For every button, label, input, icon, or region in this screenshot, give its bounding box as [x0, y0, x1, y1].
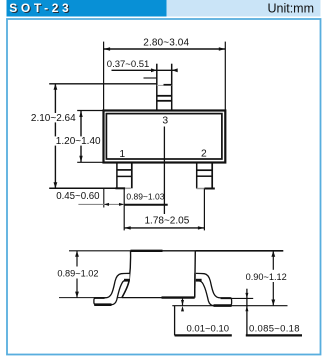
body left side — [122, 251, 131, 298]
label 2.10~2.64 — [30, 113, 77, 124]
svg-text:1.78~2.05: 1.78~2.05 — [145, 215, 190, 226]
dim 0.37~0.51 line — [112, 69, 178, 71]
arrows of top view — [54, 47, 226, 229]
pin 2 left edge — [196, 162, 198, 188]
header blue title bar — [7, 0, 167, 17]
body right side — [194, 251, 197, 298]
body top edge — [163, 250, 196, 252]
pin 2 center line — [203, 189, 205, 231]
svg-text:0.45~0.60: 0.45~0.60 — [56, 191, 100, 202]
dim 0.01~0.10 line — [182, 298, 184, 306]
pin 3 short bend line — [144, 77, 157, 79]
arrow 0.37 right — [172, 68, 178, 72]
dim 0.90~1.12 line lower seg — [272, 282, 274, 306]
dim 2.10~2.64 bottom extension — [49, 187, 117, 189]
top plane line right — [195, 250, 283, 252]
pin 2 bottom edge right black — [205, 188, 215, 190]
dim 0.89~1.02 line upper seg — [76, 251, 78, 267]
svg-text:2: 2 — [201, 149, 207, 160]
pin 1 rung — [117, 175, 132, 177]
label 0.90~1.12 — [244, 272, 289, 282]
svg-text:2.80~3.04: 2.80~3.04 — [143, 38, 189, 49]
top plane line thin left — [69, 250, 131, 252]
svg-text:0.89~1.02: 0.89~1.02 — [57, 269, 98, 279]
svg-text:1: 1 — [119, 149, 125, 160]
pin 1 bottom edge right grey — [125, 187, 131, 189]
svg-text:3: 3 — [162, 115, 168, 126]
body outline inner — [106, 114, 221, 159]
arrow 0.90 top — [271, 251, 275, 257]
dim 2.80~3.04 extension right — [224, 42, 226, 111]
seating plane line — [172, 305, 287, 307]
dim 0.085~0.18 underline — [246, 334, 302, 336]
pin 3 rung — [157, 100, 172, 102]
center line — [163, 127, 165, 215]
arrow 0.45 left — [104, 203, 109, 206]
pin 1 left edge — [116, 162, 118, 188]
arrow 0.085 down — [245, 293, 248, 299]
body outline outer — [104, 111, 226, 163]
left lead foot bottom thick — [94, 303, 111, 306]
pin 1 right edge — [131, 162, 133, 188]
left lead foot top thick — [94, 297, 104, 299]
arrow 1.20 bottom — [79, 156, 82, 163]
label 1.20~1.40 — [55, 136, 103, 147]
dim 0.89~1.02 line lower seg — [76, 279, 78, 298]
dim 0.45~0.60 leader line — [78, 203, 124, 205]
dim 2.80~3.04 extension left — [103, 42, 105, 111]
arrow 1.20 top — [79, 111, 82, 118]
right lead foot bottom thick — [214, 304, 232, 307]
arrow 0.89 top — [75, 251, 79, 257]
svg-text:0.01~0.10: 0.01~0.10 — [187, 323, 230, 334]
right lead foot top thick — [221, 297, 232, 299]
dim 1.20~1.40 top extension — [77, 110, 103, 112]
svg-text:1.20~1.40: 1.20~1.40 — [56, 136, 101, 147]
pin 2 bottom edge — [197, 188, 205, 190]
pin 3 bend line grey — [157, 84, 172, 86]
dim 2.10~2.64 top extension — [49, 83, 157, 85]
side view texts — [56, 269, 300, 335]
pin 3 right edge — [171, 64, 173, 111]
svg-text:0.37~0.51: 0.37~0.51 — [107, 59, 150, 70]
dim 0.01~0.10 underline — [175, 334, 232, 336]
arrow 1.78 left — [124, 226, 131, 229]
dim 0.89~1.03 underline — [124, 204, 168, 206]
arrow 2.10 top — [54, 84, 58, 90]
pin 2 rung — [197, 175, 213, 177]
arrow 0.085 up — [245, 306, 248, 312]
body left edge extension — [103, 189, 105, 208]
arrow 0.37 left — [151, 68, 157, 72]
dim 1.20~1.40 line — [80, 111, 82, 163]
dim 2.80~3.04 line — [104, 48, 226, 50]
right lead shoulder mark — [196, 279, 202, 282]
svg-text:0.085~0.18: 0.085~0.18 — [249, 323, 300, 334]
arrow 1.78 right — [198, 226, 205, 229]
svg-text:SOT-23: SOT-23 — [9, 1, 72, 15]
pin 1 bottom edge — [115, 187, 125, 189]
dim 2.10~2.64 line — [54, 84, 56, 188]
body bottom edge thick — [162, 296, 195, 298]
body bottom edge — [122, 297, 162, 299]
arrow 0.90 bottom — [271, 300, 275, 306]
dim 0.90~1.12 line upper seg — [272, 251, 274, 270]
body right side lower (over lead) — [194, 273, 196, 297]
pin 3 bend edge — [164, 84, 172, 86]
body bottom extension line left — [59, 297, 122, 299]
left lead shoulder mark — [124, 279, 130, 282]
arrow 2.80 left — [104, 47, 111, 50]
dim 1.20~1.40 bottom extension — [77, 161, 103, 163]
svg-text:Unit:mm: Unit:mm — [267, 2, 314, 16]
svg-text:2.10~2.64: 2.10~2.64 — [31, 113, 76, 124]
svg-text:0.89~1.03: 0.89~1.03 — [126, 192, 164, 202]
pin 2 rung — [197, 169, 213, 171]
pin 3 left edge — [156, 64, 158, 111]
header light blue band — [167, 0, 321, 17]
top view texts — [30, 38, 208, 227]
dim 1.78~2.05 line — [124, 227, 204, 229]
arrow 0.01 down — [181, 300, 184, 306]
dim 0.01~0.10 leader vertical — [174, 306, 176, 336]
right lead outline — [196, 273, 232, 305]
dim 0.085~0.18 vertical — [246, 289, 248, 336]
body left side lower (over lead) — [122, 279, 129, 297]
pin 1 center line — [123, 188, 125, 230]
pin 2 right edge — [211, 162, 213, 188]
arrow 0.89 bottom — [75, 292, 79, 298]
svg-text:0.90~1.12: 0.90~1.12 — [246, 272, 287, 282]
arrow 0.01 up below seating — [181, 306, 184, 312]
foot top extension for 0.085 dim — [232, 297, 254, 299]
arrow 0.45 right — [119, 203, 124, 206]
arrows of side view — [75, 251, 275, 312]
left lead outline — [94, 273, 130, 304]
arrow 2.10 bottom — [54, 182, 58, 188]
pin 1 rung — [117, 169, 132, 171]
label 0.89~1.02 — [56, 269, 100, 279]
arrow 2.80 right — [219, 47, 226, 50]
pin 3 rung — [157, 95, 172, 97]
body top edge thick — [131, 250, 163, 252]
